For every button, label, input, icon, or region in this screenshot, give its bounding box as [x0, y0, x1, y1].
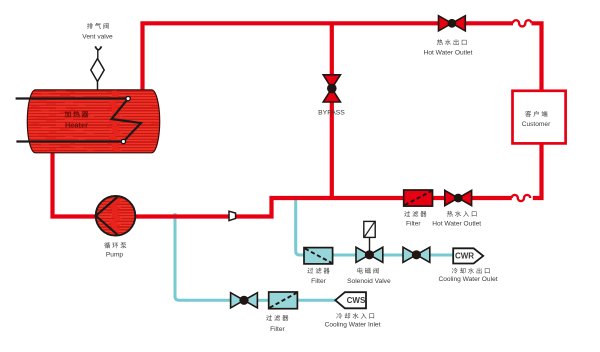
wire cooling-water-return branch (teal) — [296, 199, 304, 255]
label vent valve — [87, 23, 109, 29]
bypass valve — [323, 75, 340, 102]
solenoid valve body — [356, 247, 383, 262]
customer box — [513, 91, 566, 144]
svg-text:Customer: Customer — [522, 121, 551, 128]
wire return line to pump suction and tank bottom — [53, 152, 512, 217]
flexible connection (squiggle) on return line — [512, 195, 531, 201]
wire hot water supply: tank top riser + top header — [143, 23, 514, 91]
wire teal segment valve to filter — [257, 299, 269, 302]
check valve on pump discharge — [229, 211, 236, 220]
label pump — [104, 242, 126, 248]
heater label 加热器 / Heater — [65, 111, 89, 117]
CWR flag — [453, 248, 483, 263]
vent mark (bird) — [95, 46, 101, 49]
svg-text:Hot Water Outlet: Hot Water Outlet — [424, 50, 473, 57]
pump P1 — [96, 196, 136, 236]
svg-text:BYPASS: BYPASS — [318, 110, 345, 117]
filter on return line — [404, 190, 433, 206]
svg-text:Filter: Filter — [270, 326, 285, 333]
flexible connection (squiggle) on top header — [513, 20, 532, 26]
wire top header right end down to customer — [532, 23, 542, 91]
svg-text:Filter: Filter — [406, 221, 421, 228]
wire customer return down — [533, 143, 542, 198]
svg-text:Cooling Water Oulet: Cooling Water Oulet — [438, 276, 497, 283]
svg-text:Filter: Filter — [311, 278, 326, 285]
filter on cooling return — [304, 248, 333, 264]
wire teal segment valve to CWR flag — [429, 254, 454, 257]
svg-text:Heater: Heater — [65, 121, 88, 130]
filter on cooling supply — [269, 292, 298, 309]
svg-text:CWR: CWR — [455, 252, 474, 261]
wire teal segment solenoid to valve — [382, 254, 404, 257]
label filter — [404, 211, 426, 217]
vent stem — [97, 50, 99, 59]
heating element terminal circles — [126, 96, 130, 100]
cooling supply manual valve — [231, 293, 258, 308]
svg-text:Vent valve: Vent valve — [82, 33, 113, 40]
svg-text:Cooling Water Inlet: Cooling Water Inlet — [325, 322, 381, 329]
vent valve diamond — [91, 59, 104, 82]
heater tank — [27, 90, 159, 153]
wire teal segment filter to solenoid — [333, 254, 357, 257]
svg-text:Pump: Pump — [106, 252, 124, 259]
svg-text:CWS: CWS — [347, 296, 366, 305]
wire cooling-water-supply branch (teal) — [175, 213, 231, 300]
hot water outlet valve — [439, 16, 466, 31]
wire bypass branch — [330, 23, 334, 198]
label hot water inlet — [447, 211, 477, 217]
label hot water outlet — [437, 39, 467, 45]
vent pipe to tank — [97, 82, 99, 91]
hot water inlet valve — [445, 190, 472, 205]
CWS flag — [335, 292, 366, 308]
cooling return manual valve — [403, 247, 430, 262]
solenoid valve coil — [364, 221, 375, 237]
heating element leads and zigzag — [16, 99, 141, 142]
wire teal segment filter to CWS flag — [297, 299, 336, 302]
svg-text:Hot Water Outlet: Hot Water Outlet — [432, 221, 481, 228]
svg-text:Solenoid Valve: Solenoid Valve — [347, 278, 391, 285]
